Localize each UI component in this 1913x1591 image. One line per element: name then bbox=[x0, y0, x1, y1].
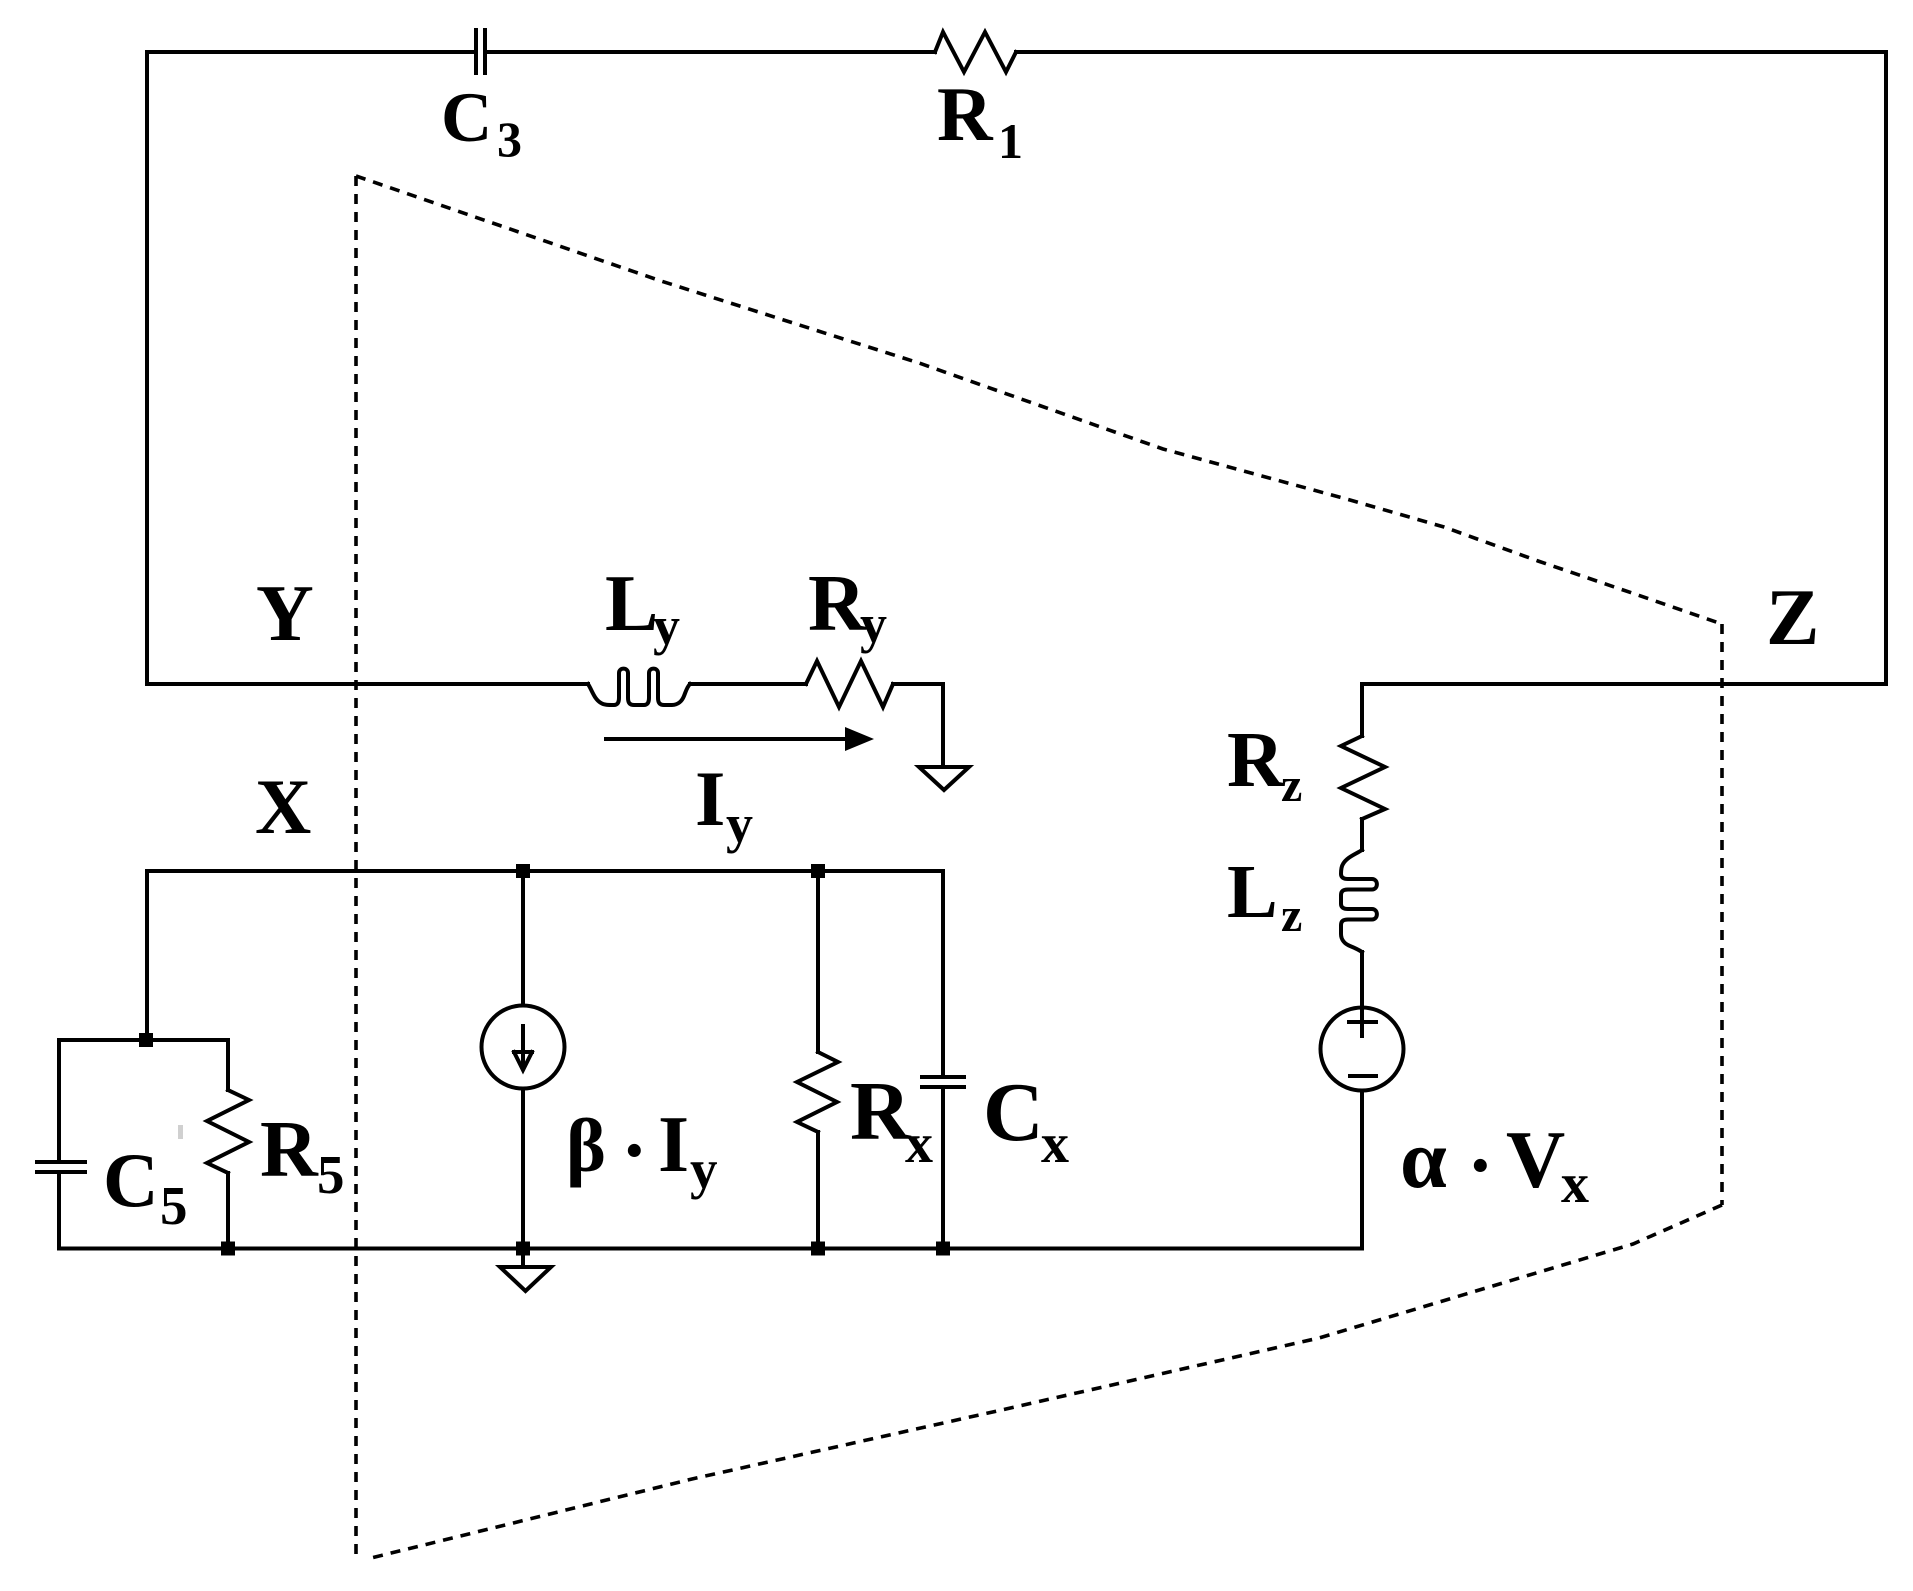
dashed right vertical bbox=[1720, 624, 1724, 1205]
voltage source a.Vx bbox=[1321, 1008, 1404, 1091]
svg-text:C: C bbox=[103, 1137, 159, 1223]
wire R5 branch upper bbox=[226, 1040, 230, 1090]
inductor Lz bbox=[1341, 850, 1377, 952]
ground (Ry) bbox=[919, 767, 969, 790]
capacitor C3 bbox=[476, 30, 485, 73]
resistor Rx bbox=[797, 1052, 838, 1132]
current arrow Iy bbox=[604, 727, 874, 751]
wire ground stem bbox=[521, 1249, 525, 1267]
wire Lz to source bbox=[1360, 952, 1364, 1008]
svg-text:L: L bbox=[605, 560, 658, 648]
wire C5R5 top bbox=[59, 1038, 228, 1042]
node: current source bottom junction bbox=[516, 1242, 530, 1256]
svg-text:z: z bbox=[1281, 889, 1302, 942]
node: R5 bottom junction bbox=[221, 1242, 235, 1256]
dashed left vertical bbox=[354, 176, 358, 1558]
wire left vertical bbox=[145, 52, 149, 684]
svg-text:x: x bbox=[1561, 1153, 1589, 1215]
capacitor C5 bbox=[37, 1162, 85, 1172]
node: Rx bottom junction bbox=[811, 1242, 825, 1256]
current source B.Iy bbox=[482, 1006, 565, 1089]
svg-text:C: C bbox=[441, 79, 492, 157]
svg-text:3: 3 bbox=[497, 111, 522, 167]
svg-text:·: · bbox=[621, 1107, 648, 1195]
svg-text:I: I bbox=[658, 1101, 689, 1189]
wire Rz-Lz link bbox=[1360, 819, 1364, 850]
wire X horizontal bbox=[147, 869, 943, 873]
svg-text:y: y bbox=[860, 594, 887, 654]
node: Cx bottom junction bbox=[936, 1242, 950, 1256]
svg-text:z: z bbox=[1281, 759, 1302, 812]
wire Rz branch upper bbox=[1360, 684, 1364, 736]
wire Cx branch lower bbox=[941, 1089, 945, 1249]
svg-text:R: R bbox=[1227, 717, 1285, 804]
wire C5 branch upper bbox=[57, 1040, 61, 1160]
svg-text:y: y bbox=[726, 794, 753, 854]
svg-text:R: R bbox=[937, 71, 994, 157]
wire bottom bbox=[59, 1247, 1362, 1251]
node: Rx top junction bbox=[811, 864, 825, 878]
wire Y mid segment bbox=[690, 682, 806, 686]
svg-text:R: R bbox=[850, 1065, 912, 1158]
svg-text:R: R bbox=[260, 1106, 319, 1194]
svg-text:X: X bbox=[255, 763, 311, 850]
svg-text:L: L bbox=[1227, 850, 1278, 934]
wire X left drop bbox=[145, 871, 149, 1040]
wire current source lower bbox=[521, 1089, 525, 1249]
svg-text:β: β bbox=[566, 1104, 606, 1188]
resistor Rz bbox=[1341, 736, 1385, 819]
svg-text:x: x bbox=[1041, 1113, 1069, 1175]
wire R5 branch lower bbox=[226, 1173, 230, 1249]
wire source lower bbox=[1360, 1091, 1364, 1249]
dashed boundary bbox=[356, 176, 1722, 1558]
wire Rx branch upper bbox=[816, 871, 820, 1052]
svg-text:Y: Y bbox=[256, 570, 314, 658]
svg-text:Z: Z bbox=[1766, 574, 1819, 662]
dashed top diagonal bbox=[356, 176, 1722, 624]
svg-text:·: · bbox=[1467, 1122, 1494, 1210]
wire C5 branch lower bbox=[57, 1174, 61, 1249]
wire top-left segment bbox=[147, 50, 473, 54]
wire current source upper bbox=[521, 871, 525, 1006]
svg-text:5: 5 bbox=[317, 1144, 345, 1205]
svg-text:y: y bbox=[690, 1139, 718, 1200]
svg-text:x: x bbox=[905, 1113, 933, 1175]
wire right vertical bbox=[1884, 52, 1888, 684]
capacitor Cx bbox=[922, 1077, 964, 1087]
svg-text:1: 1 bbox=[998, 113, 1023, 169]
resistor R5 bbox=[207, 1090, 249, 1173]
wire Y horizontal bbox=[147, 682, 588, 686]
node: current source top junction bbox=[516, 864, 530, 878]
node X: C5R5 block top junction bbox=[139, 1033, 153, 1047]
svg-text:R: R bbox=[808, 560, 867, 648]
wire Rx branch lower bbox=[816, 1132, 820, 1249]
ground (bottom) bbox=[500, 1267, 551, 1291]
wire top-right segment bbox=[1016, 50, 1886, 54]
wire Y right segment bbox=[893, 684, 943, 766]
svg-text:α: α bbox=[1400, 1113, 1447, 1206]
svg-text:y: y bbox=[653, 596, 680, 656]
wire Cx branch upper bbox=[941, 871, 945, 1075]
resistor R1 bbox=[935, 32, 1016, 72]
svg-text:V: V bbox=[1506, 1114, 1565, 1205]
svg-text:5: 5 bbox=[160, 1175, 188, 1236]
resistor Ry bbox=[806, 661, 893, 707]
wire top-middle segment bbox=[487, 50, 935, 54]
svg-text:I: I bbox=[695, 755, 725, 842]
svg-text:C: C bbox=[983, 1066, 1044, 1159]
wire Z horizontal bbox=[1362, 682, 1886, 686]
dashed bottom diagonal bbox=[371, 1205, 1722, 1558]
stray faint mark bbox=[178, 1125, 183, 1139]
inductor Ly bbox=[588, 669, 690, 705]
